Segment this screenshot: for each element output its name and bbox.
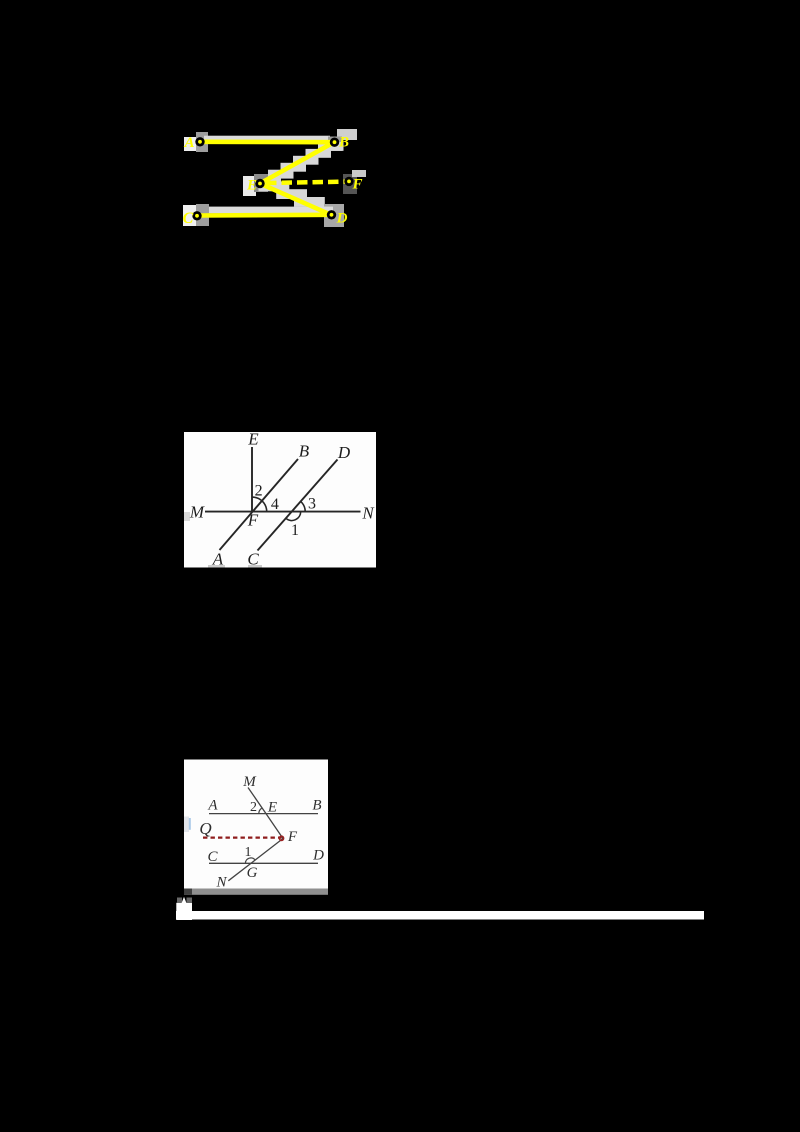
angle 1 arc at G [245,858,255,863]
svg-text:M: M [242,774,257,790]
svg-text:2: 2 [250,800,257,815]
polyline F-G-N [228,839,283,881]
svg-text:A: A [207,798,218,814]
gray halo behind point C and letter C [183,205,196,226]
svg-text:A: A [183,135,194,151]
point A marker [195,137,204,146]
svg-text:C: C [183,210,194,227]
gray halo behind point E and letter E [243,176,256,196]
point E marker [255,179,264,188]
point B marker [330,138,339,147]
svg-text:F: F [287,829,298,845]
svg-text:1: 1 [291,522,299,539]
line CD [209,862,318,864]
gray halo behind point D and letter D [324,204,344,227]
gray stepped halo along line BE [256,142,344,186]
svg-text:A: A [212,550,224,569]
angle arc at F [252,497,267,512]
dark gray halo behind point F [343,174,357,194]
wire segment CD (yellow) [197,213,331,218]
svg-text:D: D [337,443,351,462]
gray halo along line CD [202,207,333,214]
line CD diagonal [258,460,338,551]
angle 2 arc at E [259,808,262,813]
gray halo behind point B and letter B [337,129,357,140]
svg-text:D: D [312,848,324,864]
white panel [184,432,376,568]
angle 3 arc [301,501,306,511]
line EF vertical [251,447,253,512]
svg-text:B: B [338,135,349,151]
long white underline bar [176,911,704,920]
wire segment ED (yellow) [260,184,331,215]
dashed wire segment EF (yellow) [266,182,348,183]
wire segment BE (yellow) [260,142,334,183]
svg-text:E: E [246,178,257,194]
point F marker [344,177,353,186]
gray shadow bar under bottom box [184,889,328,895]
svg-text:D: D [336,211,348,227]
point D marker [327,210,336,219]
svg-text:G: G [247,865,258,881]
point C marker [192,211,201,220]
svg-text:F: F [351,177,362,193]
svg-text:N: N [215,875,227,891]
gray speck left edge near M [184,512,190,521]
line MN [205,511,361,513]
dark left segment of shadow bar [184,889,192,895]
svg-text:2: 2 [255,483,263,500]
line AB diagonal [220,459,299,550]
angle 1 arc [286,512,301,521]
svg-text:F: F [247,511,259,530]
svg-text:4: 4 [271,496,279,513]
svg-text:B: B [299,442,310,461]
white cursor blob [176,903,192,920]
svg-text:C: C [207,849,218,865]
svg-text:M: M [189,503,205,522]
svg-text:B: B [312,798,321,814]
polyline M-E-F [248,788,283,839]
svg-text:1: 1 [245,845,252,860]
line AB [209,813,318,815]
gray halo behind point A and letter A [184,137,196,151]
gray halo along line AB [204,136,330,141]
white panel [184,760,328,889]
svg-text:N: N [361,504,375,523]
svg-text:3: 3 [308,496,316,513]
wire segment AB (yellow) [200,140,334,145]
red point at F [279,836,283,840]
svg-text:C: C [247,550,259,569]
blue mark on left edge [184,817,189,833]
red dashed line QF [203,836,282,838]
svg-text:E: E [247,430,259,449]
gray stepped halo along line ED [259,182,343,215]
gray specks under letters A and C [208,565,225,568]
svg-text:E: E [267,800,277,816]
svg-text:Q: Q [199,819,211,838]
